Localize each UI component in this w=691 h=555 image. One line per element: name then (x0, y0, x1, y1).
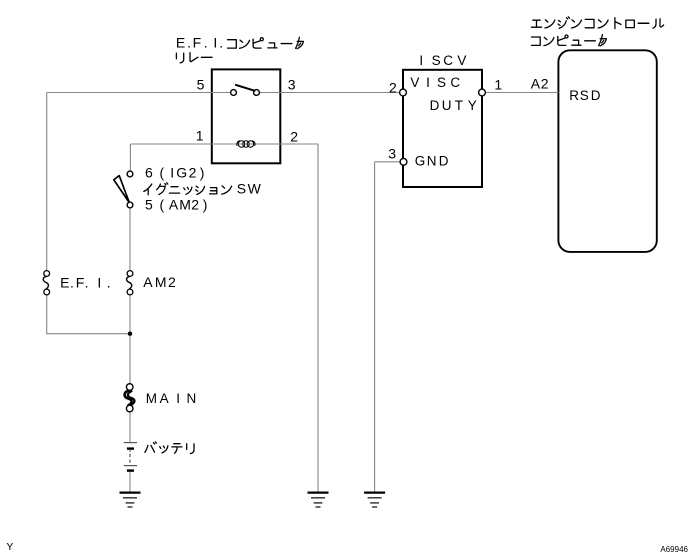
svg-text:2: 2 (290, 128, 298, 144)
svg-text:AM2: AM2 (143, 274, 176, 290)
svg-text:A2: A2 (531, 76, 549, 92)
svg-text:RSD: RSD (569, 88, 601, 103)
svg-text:Y: Y (6, 541, 13, 553)
svg-text:3: 3 (388, 145, 396, 161)
svg-text:1: 1 (196, 128, 204, 144)
svg-text:E.F.I.: E.F.I. (176, 35, 223, 51)
svg-text:A69946: A69946 (660, 545, 688, 554)
svg-text:1: 1 (494, 76, 502, 92)
svg-text:3: 3 (288, 76, 296, 92)
svg-text:GND: GND (415, 154, 449, 169)
svg-text:2: 2 (389, 79, 397, 95)
svg-text:SW: SW (237, 180, 262, 196)
svg-text:5: 5 (197, 76, 205, 92)
